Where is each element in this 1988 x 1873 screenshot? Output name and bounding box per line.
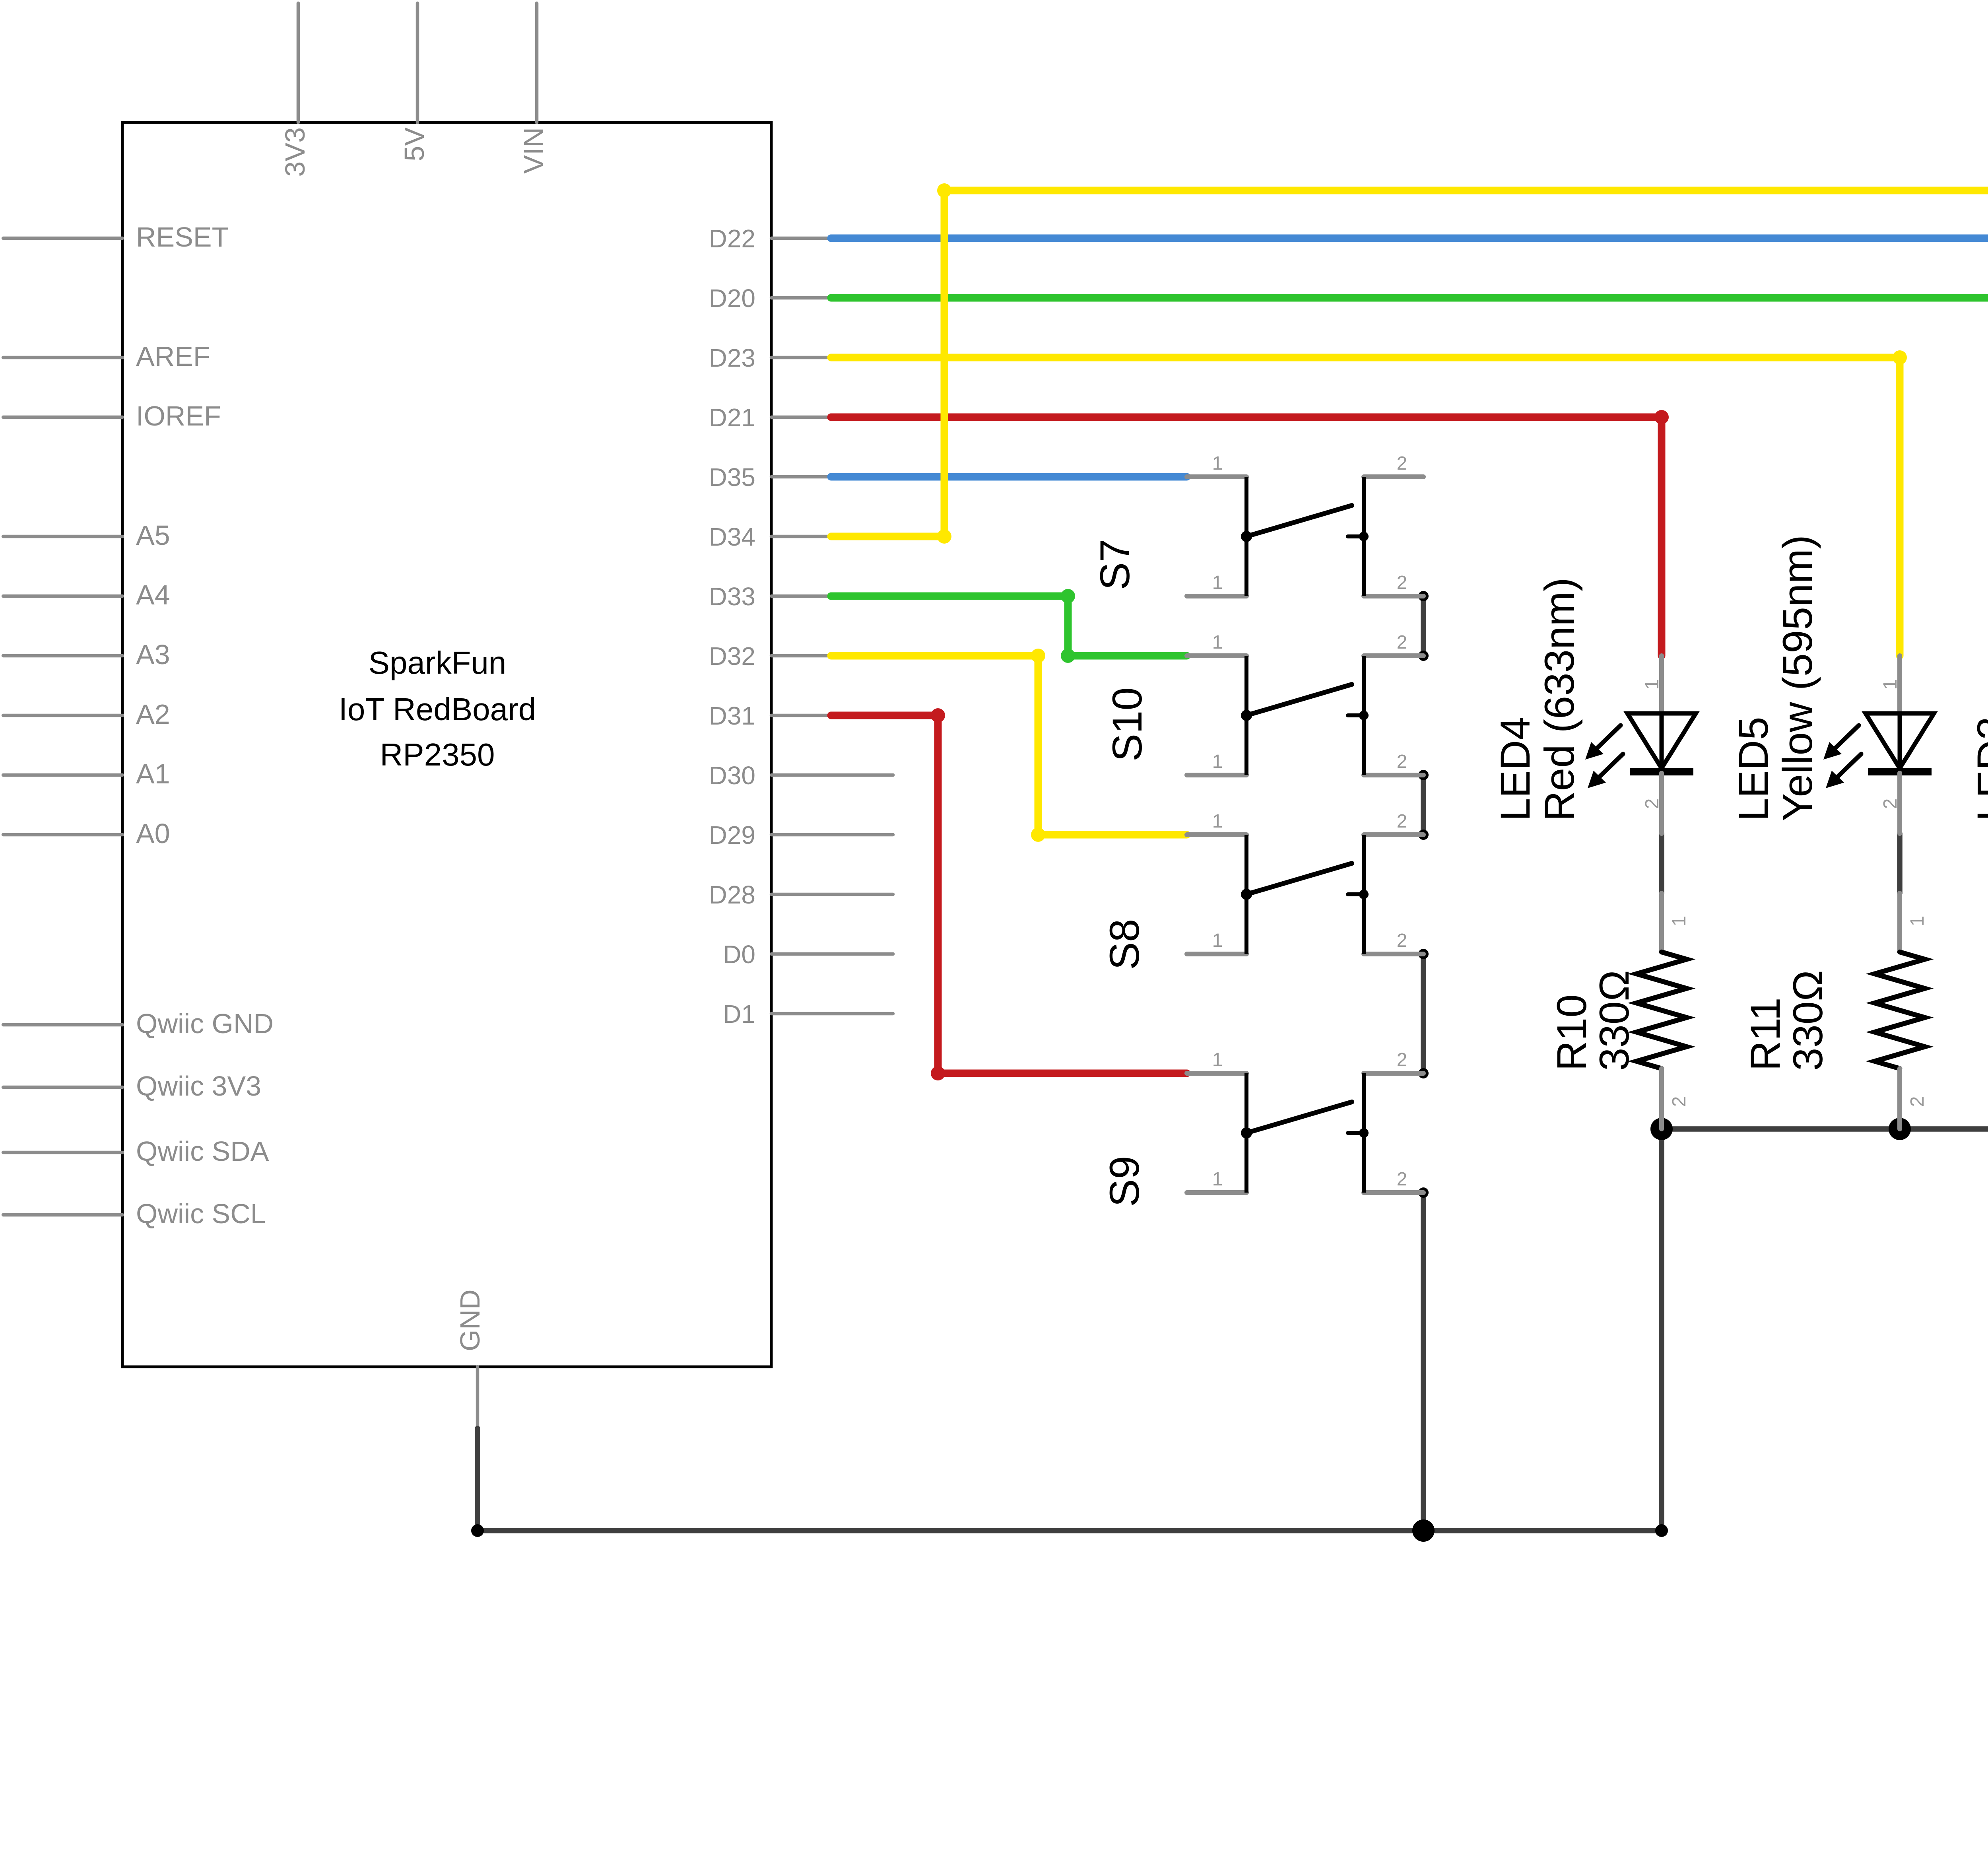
svg-text:S7: S7: [1092, 539, 1138, 590]
svg-text:GND: GND: [454, 1289, 485, 1351]
svg-text:A4: A4: [136, 579, 170, 610]
svg-text:D29: D29: [709, 821, 755, 849]
svg-text:5V: 5V: [399, 127, 430, 161]
svg-text:1: 1: [1212, 811, 1223, 832]
svg-text:D22: D22: [709, 224, 755, 253]
svg-text:Qwiic 3V3: Qwiic 3V3: [136, 1071, 261, 1102]
svg-text:Qwiic SDA: Qwiic SDA: [136, 1136, 269, 1167]
svg-text:D33: D33: [709, 582, 755, 611]
svg-text:IOREF: IOREF: [136, 400, 221, 431]
svg-text:2: 2: [1397, 572, 1408, 593]
svg-text:2: 2: [1669, 1096, 1690, 1107]
svg-text:330Ω: 330Ω: [1785, 970, 1831, 1071]
svg-text:D35: D35: [709, 463, 755, 492]
svg-text:R10: R10: [1549, 994, 1595, 1071]
svg-text:D34: D34: [709, 523, 755, 551]
svg-text:D1: D1: [723, 1000, 755, 1028]
svg-text:D0: D0: [723, 940, 755, 969]
svg-text:A5: A5: [136, 520, 170, 551]
svg-text:LED2: LED2: [1969, 717, 1988, 821]
svg-text:2: 2: [1397, 930, 1408, 951]
svg-text:D21: D21: [709, 403, 755, 432]
svg-text:2: 2: [1397, 453, 1408, 474]
svg-text:SparkFun: SparkFun: [369, 645, 507, 680]
svg-text:2: 2: [1397, 811, 1408, 832]
svg-text:D31: D31: [709, 701, 755, 730]
svg-text:330Ω: 330Ω: [1591, 970, 1638, 1071]
svg-text:1: 1: [1669, 916, 1690, 927]
svg-text:1: 1: [1642, 679, 1663, 690]
svg-text:3V3: 3V3: [280, 127, 311, 177]
svg-text:1: 1: [1212, 1049, 1223, 1071]
svg-text:D23: D23: [709, 344, 755, 372]
svg-text:Qwiic GND: Qwiic GND: [136, 1008, 274, 1039]
svg-text:LED5: LED5: [1730, 717, 1777, 821]
svg-text:D30: D30: [709, 761, 755, 790]
svg-text:2: 2: [1907, 1096, 1928, 1107]
svg-text:1: 1: [1907, 916, 1928, 927]
svg-text:Red (633nm): Red (633nm): [1536, 577, 1583, 821]
svg-text:2: 2: [1880, 799, 1901, 809]
svg-text:1: 1: [1212, 632, 1223, 653]
svg-text:LED4: LED4: [1492, 717, 1539, 821]
svg-text:2: 2: [1397, 632, 1408, 653]
svg-text:RESET: RESET: [136, 221, 229, 253]
svg-text:AREF: AREF: [136, 341, 210, 372]
svg-text:1: 1: [1212, 453, 1223, 474]
svg-text:RP2350: RP2350: [380, 737, 495, 772]
svg-text:1: 1: [1212, 930, 1223, 951]
svg-text:1: 1: [1212, 751, 1223, 772]
svg-text:D32: D32: [709, 642, 755, 670]
svg-text:R11: R11: [1742, 997, 1789, 1071]
svg-text:IoT RedBoard: IoT RedBoard: [339, 692, 536, 727]
svg-text:D28: D28: [709, 880, 755, 909]
svg-text:1: 1: [1212, 1169, 1223, 1190]
svg-text:VIN: VIN: [518, 127, 549, 174]
svg-text:Yellow (595nm): Yellow (595nm): [1774, 535, 1821, 821]
svg-text:1: 1: [1212, 572, 1223, 593]
svg-text:1: 1: [1880, 679, 1901, 690]
svg-text:A3: A3: [136, 639, 170, 670]
svg-text:S8: S8: [1101, 919, 1148, 970]
svg-text:S9: S9: [1101, 1156, 1148, 1207]
svg-text:2: 2: [1397, 1169, 1408, 1190]
svg-text:A2: A2: [136, 699, 170, 730]
svg-text:A0: A0: [136, 818, 170, 849]
svg-text:2: 2: [1397, 751, 1408, 772]
svg-text:2: 2: [1642, 799, 1663, 809]
svg-text:Qwiic SCL: Qwiic SCL: [136, 1198, 266, 1229]
svg-text:A1: A1: [136, 758, 170, 789]
svg-text:S10: S10: [1104, 687, 1151, 762]
svg-text:D20: D20: [709, 284, 755, 313]
svg-text:2: 2: [1397, 1049, 1408, 1071]
